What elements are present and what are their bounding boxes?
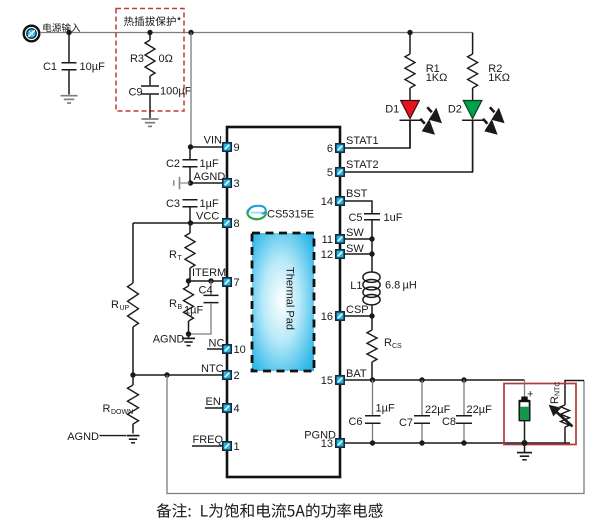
svg-text:16: 16 [321, 311, 333, 323]
thermal pad [252, 233, 314, 371]
svg-text:UP: UP [120, 305, 130, 312]
capacitor C5 [348, 212, 402, 239]
ground below C1 [61, 96, 78, 103]
svg-text:R: R [169, 298, 177, 310]
wire AGND pin [190, 182, 223, 184]
resistor R3 [130, 33, 173, 86]
svg-text:C1: C1 [43, 61, 57, 73]
svg-text:2: 2 [234, 370, 240, 382]
LED D2 emission arrows [483, 107, 505, 135]
pin 6 STAT1 [327, 143, 344, 155]
svg-text:15: 15 [321, 375, 333, 387]
battery pack red box [504, 384, 576, 445]
resistor RUP [111, 223, 138, 375]
inductor L1 [350, 239, 417, 316]
svg-text:L1: L1 [350, 280, 362, 292]
svg-text:AGND: AGND [153, 334, 185, 346]
node BAT-C8 [461, 377, 466, 382]
svg-text:R: R [103, 403, 111, 415]
svg-text:STAT2: STAT2 [346, 159, 379, 171]
svg-text:D2: D2 [448, 104, 462, 116]
wire BAT rail [344, 379, 524, 381]
resistor RDOWN [103, 375, 139, 434]
hot-swap protection dashed box [116, 9, 184, 112]
svg-text:6: 6 [327, 143, 333, 155]
pin 4 EN [223, 403, 240, 415]
pin 3 AGND [223, 178, 240, 190]
svg-text:3: 3 [234, 178, 240, 190]
node NTC-RUP [130, 372, 135, 377]
LED D2 green [448, 101, 483, 173]
LED D1 emission arrows [420, 107, 442, 135]
connector J1 power input [24, 26, 40, 42]
node BAT-C7 [419, 377, 424, 382]
capacitor C9 [128, 86, 191, 119]
ground AGND tick left [174, 177, 190, 189]
svg-text:14: 14 [321, 196, 333, 208]
svg-text:VIN: VIN [204, 135, 222, 147]
svg-text:0Ω: 0Ω [159, 53, 173, 65]
wire CSP pin [344, 315, 372, 317]
svg-text:1uF: 1uF [384, 212, 403, 224]
svg-text:R3: R3 [130, 53, 144, 65]
pin 7 ITERM [223, 277, 240, 289]
wire PGND rail [344, 442, 570, 444]
node CSP [369, 313, 374, 318]
svg-text:1µF: 1µF [376, 403, 395, 415]
pin 14 BST [321, 196, 344, 208]
svg-text:ITERM: ITERM [192, 267, 226, 279]
wire ITERM pin [189, 280, 223, 282]
svg-text:VCC: VCC [196, 211, 219, 223]
svg-text:AGND: AGND [194, 171, 226, 183]
svg-text:R: R [169, 249, 177, 261]
svg-text:C5: C5 [348, 212, 362, 224]
op-amp U1 CS5315E IC body [227, 127, 340, 477]
svg-text:8: 8 [234, 218, 240, 230]
label RNTC rotated [549, 382, 562, 404]
node ITERM-RB [186, 278, 191, 283]
node PGND-C6 [370, 440, 375, 445]
svg-text:SW: SW [346, 243, 364, 255]
wire SW pin12 [344, 253, 372, 255]
wire BST [344, 201, 372, 213]
label 热插拔保护* [124, 16, 181, 26]
node SW2 [369, 251, 374, 256]
node top-VIN [188, 30, 193, 35]
pin 16 CSP [321, 311, 344, 323]
node BAT-C6 [370, 377, 375, 382]
resistor RCS [367, 316, 402, 380]
svg-text:STAT1: STAT1 [346, 135, 379, 147]
LED D1 red [385, 101, 420, 149]
wire NC stub [207, 348, 223, 350]
capacitor C8 [442, 380, 492, 443]
svg-text:+: + [527, 389, 533, 401]
pin 11 SW [322, 234, 345, 246]
svg-text:1µF: 1µF [184, 305, 203, 317]
wire STAT2 [344, 120, 472, 172]
wire EN stub [205, 407, 223, 409]
svg-text:NC: NC [209, 338, 225, 350]
wire VIN pin [190, 146, 223, 148]
svg-text:C2: C2 [166, 158, 180, 170]
svg-text:C8: C8 [442, 416, 456, 428]
svg-text:100µF: 100µF [160, 86, 192, 98]
wire SW pin11 [344, 238, 372, 240]
svg-text:AGND: AGND [67, 431, 99, 443]
svg-text:11: 11 [322, 234, 333, 246]
resistor RT [169, 223, 195, 281]
svg-text:1KΩ: 1KΩ [488, 72, 510, 84]
svg-text:9: 9 [234, 142, 240, 154]
ground below C9 [142, 119, 159, 126]
node VCC [188, 220, 193, 225]
svg-text:Thermal Pad: Thermal Pad [284, 267, 296, 330]
svg-text:C9: C9 [128, 87, 142, 99]
capacitor C1 [43, 33, 105, 95]
svg-text:5: 5 [327, 167, 333, 179]
node top-R1 [407, 30, 412, 35]
svg-text:R: R [384, 337, 392, 349]
wire VCC pin [133, 222, 223, 224]
svg-text:T: T [178, 255, 183, 262]
node PGND-C7 [419, 440, 424, 445]
svg-text:1µF: 1µF [200, 158, 219, 170]
node SW1 [369, 236, 374, 241]
svg-text:D1: D1 [385, 104, 399, 116]
svg-text:FREQ: FREQ [193, 434, 224, 446]
svg-text:R: R [549, 396, 561, 404]
wire NTC pin [133, 374, 223, 376]
svg-text:22µF: 22µF [425, 404, 451, 416]
svg-text:4: 4 [234, 403, 240, 415]
svg-text:C7: C7 [399, 417, 413, 429]
wire VIN drop [190, 33, 192, 147]
node PGND-C8 [461, 440, 466, 445]
svg-text:C4: C4 [199, 285, 213, 297]
node VIN-C2 [188, 144, 193, 149]
svg-text:NTC: NTC [555, 382, 562, 396]
ground AGND below RB [182, 334, 195, 346]
pin 13 PGND [321, 438, 344, 450]
capacitor C3 [166, 198, 219, 223]
pin 1 FREQ [223, 441, 240, 453]
svg-text:CSP: CSP [346, 304, 369, 316]
svg-text:BST: BST [346, 188, 368, 200]
svg-text:PGND: PGND [304, 430, 336, 442]
svg-text:12: 12 [321, 249, 333, 261]
ground below battery [517, 443, 532, 460]
svg-text:DOWN: DOWN [111, 409, 133, 416]
wire FREQ stub [192, 445, 223, 447]
svg-text:10: 10 [234, 344, 246, 356]
svg-text:BAT: BAT [346, 368, 367, 380]
resistor R2 [468, 33, 510, 101]
label 电源输入 [43, 23, 80, 32]
resistor RB [169, 281, 193, 334]
capacitor C2 [166, 147, 219, 183]
wire NTC loop [167, 375, 584, 494]
node ITERM-C4 [208, 278, 213, 283]
svg-text:22µF: 22µF [467, 404, 493, 416]
pin 2 NTC [223, 370, 240, 382]
logo chipsea [247, 206, 265, 219]
node AGND-RB [186, 331, 191, 336]
pin 10 NC [223, 344, 246, 356]
svg-text:7: 7 [234, 277, 240, 289]
svg-text:1: 1 [234, 441, 240, 453]
svg-text:1µF: 1µF [200, 198, 219, 210]
pin 5 STAT2 [327, 167, 344, 179]
note text 备注 [157, 503, 383, 518]
thermistor RNTC [550, 405, 573, 443]
wire top rail [40, 32, 473, 34]
svg-text:NTC: NTC [201, 363, 224, 375]
svg-text:B: B [178, 304, 183, 311]
wire STAT1 [344, 120, 410, 148]
svg-text:SW: SW [346, 227, 364, 239]
node top-R3 [147, 30, 152, 35]
svg-text:6.8 µH: 6.8 µH [385, 280, 417, 292]
node NTC-loop [164, 372, 169, 377]
svg-text:CS: CS [392, 343, 402, 350]
svg-text:10µF: 10µF [80, 61, 106, 73]
capacitor C6 [348, 380, 395, 443]
capacitor C4 [184, 281, 219, 334]
node battery-PGND [522, 440, 528, 446]
svg-text:CS5315E: CS5315E [267, 209, 314, 221]
node AGND [188, 180, 193, 185]
resistor R1 [405, 33, 447, 101]
svg-text:C6: C6 [348, 416, 362, 428]
pin 12 SW [321, 249, 344, 261]
svg-text:EN: EN [206, 396, 221, 408]
pin 9 VIN [223, 142, 240, 154]
capacitor C7 [399, 380, 451, 443]
svg-text:C3: C3 [166, 198, 180, 210]
pin 15 BAT [321, 375, 344, 387]
svg-text:1KΩ: 1KΩ [426, 72, 448, 84]
svg-text:R: R [111, 299, 119, 311]
pin 8 VCC [223, 218, 240, 230]
node top-C1 [66, 30, 71, 35]
ground below RDOWN [127, 436, 140, 443]
battery BT1 [519, 380, 534, 443]
